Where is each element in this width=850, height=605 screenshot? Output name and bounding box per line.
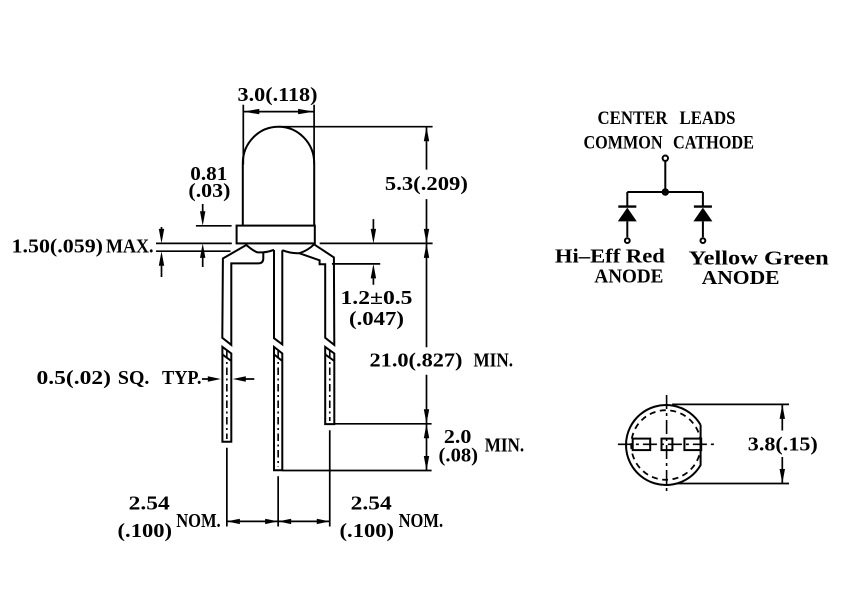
lead 3 (right anode) upper tab	[299, 245, 334, 345]
diode D1 triangle	[618, 208, 637, 222]
svg-text:CATHODE: CATHODE	[673, 133, 754, 153]
dim 1.50 extension + shafts	[156, 227, 231, 277]
svg-text:2.54: 2.54	[129, 492, 170, 514]
dome top reference line	[279, 126, 433, 128]
arrowheads dim 1.2	[371, 229, 376, 244]
wire D1 anode	[626, 221, 628, 237]
dim 3.0(.118) extension lines	[243, 105, 314, 165]
arrowheads dim 21.0	[424, 243, 429, 258]
dim 2.0 dimension line	[426, 424, 428, 471]
dim 0.81 extension + shafts	[196, 204, 232, 267]
arrowheads dim 3.0	[243, 109, 259, 114]
svg-text:(.047): (.047)	[349, 308, 404, 330]
lead section right	[684, 439, 701, 451]
wire right drop	[702, 192, 704, 207]
LED body outline	[243, 127, 314, 226]
pointer 0.5 SQ TYP	[202, 378, 254, 380]
bottom view outline with flat	[626, 405, 701, 485]
svg-text:COMMON: COMMON	[584, 133, 664, 153]
svg-text:21.0(.827): 21.0(.827)	[370, 349, 463, 371]
lead 1 (left anode) upper tab	[222, 245, 263, 345]
wire cathode drop	[664, 161, 666, 192]
diode D2 (Yellow Green) cathode bar	[694, 205, 712, 207]
wire left drop	[626, 192, 628, 207]
lead section left	[633, 439, 651, 451]
svg-text:MIN.: MIN.	[474, 349, 514, 371]
svg-text:3.0(.118): 3.0(.118)	[238, 84, 318, 106]
arrowheads dim 0.81	[200, 211, 205, 226]
lead 2 lower segment with break	[274, 347, 282, 470]
lead tip reference lines	[283, 424, 432, 471]
node: common cathode terminal	[663, 156, 668, 161]
junction dot	[662, 188, 669, 195]
svg-text:CENTER: CENTER	[598, 109, 669, 129]
lead 3 lower segment with break	[325, 347, 334, 424]
lead 3 centerline	[329, 351, 331, 421]
arrowheads dim 2.0	[424, 424, 429, 439]
svg-text:1.2±0.5: 1.2±0.5	[341, 287, 413, 309]
dim 1.2 extension + shafts	[332, 219, 380, 285]
node: D1 anode terminal	[625, 238, 630, 243]
svg-text:MAX.: MAX.	[106, 236, 154, 258]
svg-text:ANODE: ANODE	[594, 266, 663, 288]
epoxy base meniscus	[246, 244, 315, 253]
diode D1 (Hi-Eff Red) cathode bar	[618, 205, 636, 207]
lead 2 (center cathode) upper tab	[274, 250, 282, 344]
lead 1 lower segment with break	[222, 347, 231, 442]
lead extension lines below tips	[227, 430, 330, 526]
svg-text:5.3(.209): 5.3(.209)	[385, 173, 468, 195]
node: D2 anode terminal	[701, 238, 706, 243]
diode D2 triangle	[693, 208, 712, 222]
svg-text:ANODE: ANODE	[702, 267, 780, 289]
svg-text:3.8(.15): 3.8(.15)	[748, 433, 818, 455]
lead 1 centerline	[226, 351, 228, 439]
lead section center	[662, 439, 673, 451]
svg-text:0.5(.02): 0.5(.02)	[37, 367, 112, 389]
arrowheads dim 3.8	[780, 404, 785, 419]
svg-text:Hi–Eff Red: Hi–Eff Red	[555, 246, 665, 268]
svg-text:LEADS: LEADS	[680, 109, 736, 129]
bottom view inner dashed circle	[631, 410, 701, 480]
svg-text:(.08): (.08)	[439, 445, 479, 467]
wire rail	[627, 191, 703, 193]
svg-text:SQ.: SQ.	[118, 367, 149, 389]
dim 2.54 dimension line	[227, 520, 330, 522]
svg-text:(.100): (.100)	[118, 520, 173, 542]
svg-text:(.03): (.03)	[188, 180, 230, 202]
LED flange	[237, 226, 315, 244]
dim 3.8 extension lines	[672, 404, 789, 483]
svg-text:NOM.: NOM.	[176, 510, 221, 532]
svg-text:(.100): (.100)	[340, 520, 395, 542]
flange bottom extension lines	[156, 242, 433, 244]
svg-text:TYP.: TYP.	[162, 367, 202, 389]
dim 3.8 dimension line	[781, 404, 783, 483]
arrowheads dim 1.50	[159, 229, 164, 244]
centerline horizontal	[618, 443, 715, 445]
dim 21.0 dimension line	[426, 243, 428, 423]
svg-text:NOM.: NOM.	[399, 510, 444, 532]
centerline vertical	[666, 395, 668, 493]
arrowheads dim 2.54	[227, 519, 240, 524]
svg-text:1.50(.059): 1.50(.059)	[12, 236, 104, 258]
arrowheads dim 5.3	[424, 127, 429, 142]
arrowheads pointer 0.5	[208, 376, 221, 381]
dim 5.3(.209) dimension line	[426, 127, 428, 244]
lead 2 centerline	[277, 351, 279, 467]
wire D2 anode	[702, 221, 704, 237]
svg-text:2.54: 2.54	[351, 492, 392, 514]
dim 3.0(.118) dimension line	[243, 111, 314, 113]
svg-text:MIN.: MIN.	[485, 435, 525, 457]
